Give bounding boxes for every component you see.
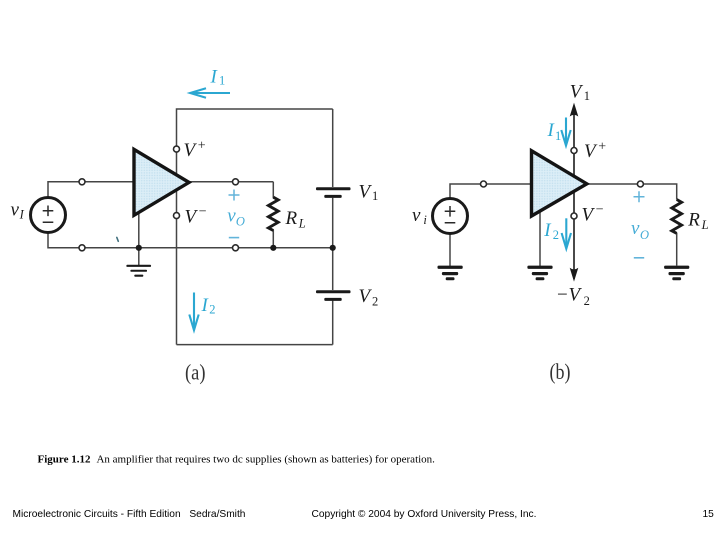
svg-text:V: V: [184, 140, 198, 161]
ground under amplifier (b): [527, 266, 552, 281]
svg-text:V: V: [582, 205, 596, 226]
label RL (b): [687, 210, 708, 233]
label vI: [11, 200, 25, 222]
op-amp A1 triangle: [134, 149, 189, 215]
svg-text:v: v: [412, 205, 421, 226]
svg-text:V: V: [185, 207, 199, 228]
svg-text:Figure 1.12An amplifier that r: Figure 1.12An amplifier that requires tw…: [38, 454, 436, 466]
svg-text:Microelectronic Circuits - Fif: Microelectronic Circuits - Fifth Edition: [13, 509, 181, 520]
wire: source vi stub and input wire: [450, 184, 532, 199]
wire: source vi to ground: [449, 233, 451, 266]
svg-text:2: 2: [209, 302, 215, 316]
label + of vO (a): [229, 190, 240, 201]
terminal: input (b): [481, 181, 487, 187]
svg-text:R: R: [285, 208, 298, 229]
current arrow I2 (b): [562, 218, 571, 248]
label + of vO (b): [634, 191, 645, 202]
terminal: input top: [79, 179, 85, 185]
figure caption: [38, 454, 436, 466]
terminal: V+ pin: [174, 146, 180, 152]
wire: source vI top stub and input wire to amplifier: [48, 182, 135, 198]
svg-text:1: 1: [584, 89, 590, 103]
label V+ (b): [584, 140, 606, 163]
label V1: [359, 181, 379, 203]
ground under source (b): [438, 266, 463, 281]
svg-text:I: I: [201, 295, 210, 316]
current arrow I2 (a): [189, 293, 198, 331]
svg-text:V: V: [569, 285, 583, 306]
resistor RL (b): [672, 200, 682, 234]
svg-text:−: −: [199, 205, 207, 220]
svg-text:+: +: [198, 139, 206, 154]
wire: amplifier bottom terminal to ground junction: [138, 208, 140, 265]
svg-text:L: L: [701, 218, 709, 232]
label V2: [359, 286, 379, 309]
svg-text:Sedra/Smith: Sedra/Smith: [189, 509, 245, 520]
terminal: output return: [233, 245, 239, 251]
svg-text:O: O: [236, 214, 245, 228]
arrowhead down to -V2: [570, 268, 579, 282]
svg-text:(a): (a): [185, 360, 206, 385]
wire: top supply rail with V+ column: [177, 109, 333, 345]
svg-text:1: 1: [372, 189, 378, 203]
label -V2: [557, 285, 590, 308]
svg-text:(b): (b): [550, 359, 571, 384]
svg-text:+: +: [598, 140, 606, 155]
resistor RL (a): [268, 197, 278, 230]
svg-text:2: 2: [372, 295, 378, 309]
wire: RL vertical branch: [272, 182, 274, 248]
label RL (a): [285, 208, 306, 230]
battery V2: [316, 290, 351, 301]
ground under RL (b): [664, 266, 689, 281]
op-amp A2 triangle: [532, 151, 587, 216]
label V1 (b): [570, 81, 590, 103]
label V+: [184, 139, 206, 162]
svg-text:−: −: [596, 203, 604, 218]
wire: bottom rail from source to battery column: [48, 233, 333, 248]
junction: RL bottom: [270, 245, 276, 251]
svg-text:V: V: [570, 81, 584, 102]
svg-text:I: I: [210, 66, 219, 87]
svg-text:1: 1: [555, 129, 561, 143]
terminal: V+ pin (b): [571, 148, 577, 154]
label V-: [185, 205, 207, 228]
junction: battery mid tap: [330, 245, 336, 251]
ground symbol (a): [126, 265, 151, 277]
svg-text:I: I: [19, 208, 25, 222]
svg-text:−: −: [557, 285, 568, 306]
voltage source vi: [433, 199, 468, 234]
svg-text:2: 2: [553, 228, 559, 242]
wire: battery column V1 V2: [332, 109, 334, 345]
terminal: V- pin (b): [571, 213, 577, 219]
svg-text:O: O: [640, 228, 649, 242]
current arrow I1 (b): [561, 118, 570, 146]
svg-text:1: 1: [219, 73, 225, 87]
terminal: input bottom: [79, 245, 85, 251]
label - of vO (a): [229, 237, 239, 239]
terminal: V- pin: [174, 213, 180, 219]
terminal: output: [233, 179, 239, 185]
svg-text:V: V: [359, 286, 373, 307]
label I1 (a): [210, 66, 226, 87]
arrowhead up to V1: [570, 103, 579, 117]
label I2 (b): [543, 220, 559, 242]
svg-text:L: L: [298, 216, 306, 230]
label vO (b): [631, 218, 649, 242]
stray tick mark: [117, 237, 119, 241]
voltage source vI: [31, 198, 66, 233]
svg-text:15: 15: [703, 509, 715, 520]
junction: ground node: [136, 245, 142, 251]
svg-text:V: V: [584, 141, 598, 162]
label I2 (a): [201, 295, 216, 316]
label vi: [412, 205, 427, 227]
label - of vO (b): [634, 257, 644, 259]
svg-text:I: I: [543, 220, 552, 241]
terminal: output (b): [637, 181, 643, 187]
label vO (a): [227, 206, 245, 229]
svg-text:v: v: [11, 200, 20, 221]
label V- (b): [582, 203, 604, 226]
label I1 (b): [547, 120, 562, 143]
svg-text:2: 2: [584, 294, 590, 308]
svg-text:v: v: [631, 218, 640, 239]
current arrow I1 (a): [190, 88, 230, 97]
wire: bottom return rail of batteries: [177, 344, 333, 346]
svg-text:R: R: [687, 210, 700, 231]
svg-text:V: V: [359, 181, 373, 202]
svg-text:i: i: [423, 213, 427, 227]
wire: output of amplifier to RL corner: [187, 181, 273, 183]
svg-text:Copyright © 2004 by Oxford Uni: Copyright © 2004 by Oxford University Pr…: [312, 509, 537, 520]
wire: amplifier common to ground: [539, 206, 541, 266]
wire: supply line V+ / V- column: [573, 106, 575, 279]
wire: output to RL: [585, 184, 677, 266]
battery V1: [316, 187, 351, 198]
